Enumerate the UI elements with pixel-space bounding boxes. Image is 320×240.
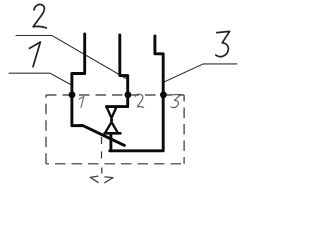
inside pin label 1 bbox=[79, 97, 84, 108]
label numeral 2 (terminal 2 callout) bbox=[33, 4, 46, 28]
leader line for label 2 bbox=[16, 36, 126, 79]
label numeral 1 (terminal 1 callout) bbox=[29, 42, 40, 67]
component boundary dashed box bbox=[46, 95, 184, 164]
label numeral 3 (terminal 3 callout) bbox=[216, 31, 230, 56]
case arrow right chevron bbox=[105, 177, 114, 183]
junction dot pin 3 bbox=[160, 91, 167, 98]
diode D2 triangle (points up) bbox=[105, 122, 118, 133]
leader line for label 3 bbox=[164, 64, 237, 82]
junction dot pin 2 bbox=[125, 91, 132, 98]
dashed case-connection line bbox=[101, 137, 103, 174]
pin 1 wire (top lead, jog, down to gate diagonal) bbox=[72, 34, 125, 145]
wire from D2 bar down to bottom rail bbox=[109, 133, 112, 151]
leader line for label 1 bbox=[9, 73, 71, 84]
box top edge bbox=[46, 94, 184, 96]
box bottom edge bbox=[46, 163, 184, 165]
inside pin label 3 bbox=[171, 94, 181, 107]
box left edge bbox=[45, 95, 47, 164]
diode D2 cathode bar bbox=[105, 132, 121, 135]
inside pin label 2 bbox=[135, 94, 143, 107]
pin 3 wire (top lead, jog, down right side, bottom rail) bbox=[110, 36, 163, 151]
pin 2 wire (top lead, jog right, down, bar left) bbox=[106, 35, 127, 107]
junction dot pin 1 bbox=[69, 91, 76, 98]
junction blob between diode apexes bbox=[110, 118, 113, 121]
diode D1 triangle (points down) bbox=[106, 107, 116, 118]
box right edge bbox=[183, 95, 185, 164]
case arrow left chevron bbox=[90, 176, 98, 182]
